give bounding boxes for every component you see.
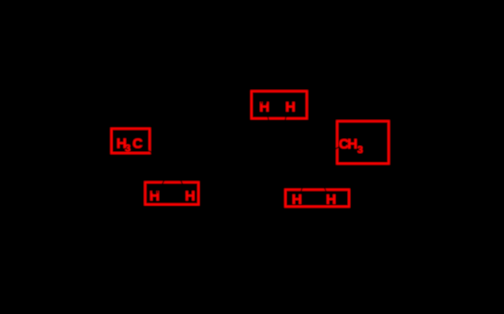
overdraw bite on bottom-left-box left H, right stem bbox=[157, 191, 158, 193]
bond notch on C glyph of H3C bbox=[140, 144, 142, 146]
bond C6-He bbox=[300, 168, 312, 193]
svg-text:H: H bbox=[326, 191, 336, 207]
bond C5-Hd bbox=[277, 112, 288, 142]
svg-text:C: C bbox=[133, 135, 143, 151]
bond C6-Hf bbox=[312, 168, 327, 193]
bond C4-C5 bbox=[242, 143, 277, 168]
bond C2-Hb bbox=[173, 168, 187, 189]
bond C6-C7 bbox=[312, 144, 342, 168]
highlight box H3C (C1) bbox=[111, 129, 149, 153]
svg-text:H: H bbox=[185, 188, 195, 204]
svg-text:H: H bbox=[285, 98, 295, 114]
highlight box bottom-left (H H of C2) bbox=[145, 182, 198, 204]
highlight box CH3 (C7) bbox=[337, 121, 389, 163]
overdraw bite on top-box left H, left stem bbox=[261, 101, 262, 103]
bond C2-C3 bbox=[173, 143, 208, 168]
svg-text:H: H bbox=[149, 188, 159, 204]
bond C1-C2 bbox=[139, 144, 173, 168]
bond C3-C4 bbox=[207, 143, 242, 168]
svg-text:H: H bbox=[292, 191, 302, 207]
bond C5-C6 bbox=[277, 143, 312, 168]
overdraw bite on bottom-left-box left H, left stem bbox=[152, 191, 153, 193]
svg-text:H: H bbox=[259, 98, 269, 114]
overdraw bite on top-box left H, right stem bbox=[266, 101, 267, 103]
svg-text:H: H bbox=[347, 135, 357, 151]
highlight box bottom-right (H H of C6) bbox=[285, 190, 349, 207]
bond C2-Ha bbox=[159, 168, 173, 189]
bond C5-Hc bbox=[266, 112, 277, 142]
svg-text:3: 3 bbox=[125, 144, 131, 155]
svg-text:3: 3 bbox=[357, 145, 363, 156]
highlight box top (H H of C5) bbox=[252, 91, 307, 118]
